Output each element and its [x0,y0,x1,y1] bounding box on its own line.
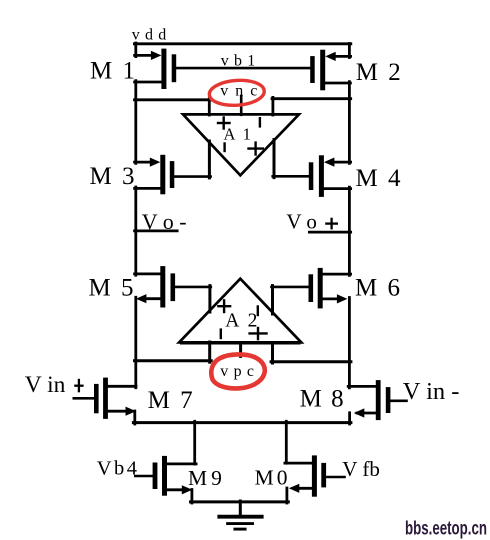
svg-text:M 4: M 4 [356,165,403,192]
svg-text:V o: V o [286,209,317,233]
svg-text:V in -: V in - [403,378,460,405]
svg-text:M 3: M 3 [90,163,137,190]
svg-text:V in: V in [25,372,66,398]
svg-text:M9: M9 [188,466,226,490]
svg-text:M 1: M 1 [90,57,137,84]
svg-text:vpc: vpc [220,363,259,380]
svg-text:M 5: M 5 [89,275,136,302]
svg-text:vdd: vdd [132,27,172,44]
svg-text:vb1: vb1 [221,53,261,70]
svg-text:A 2: A 2 [225,311,259,332]
svg-text:M 2: M 2 [356,59,403,86]
svg-text:A 1: A 1 [224,124,253,143]
svg-text:M 8: M 8 [300,386,345,413]
svg-text:M0: M0 [255,465,291,489]
svg-text:M 6: M 6 [355,275,402,302]
svg-text:M 7: M 7 [148,387,195,414]
svg-text:V fb: V fb [342,457,380,481]
svg-text:V o -: V o - [142,209,187,234]
svg-text:bbs.eetop.cn: bbs.eetop.cn [405,519,487,540]
svg-text:Vb4: Vb4 [97,458,140,480]
